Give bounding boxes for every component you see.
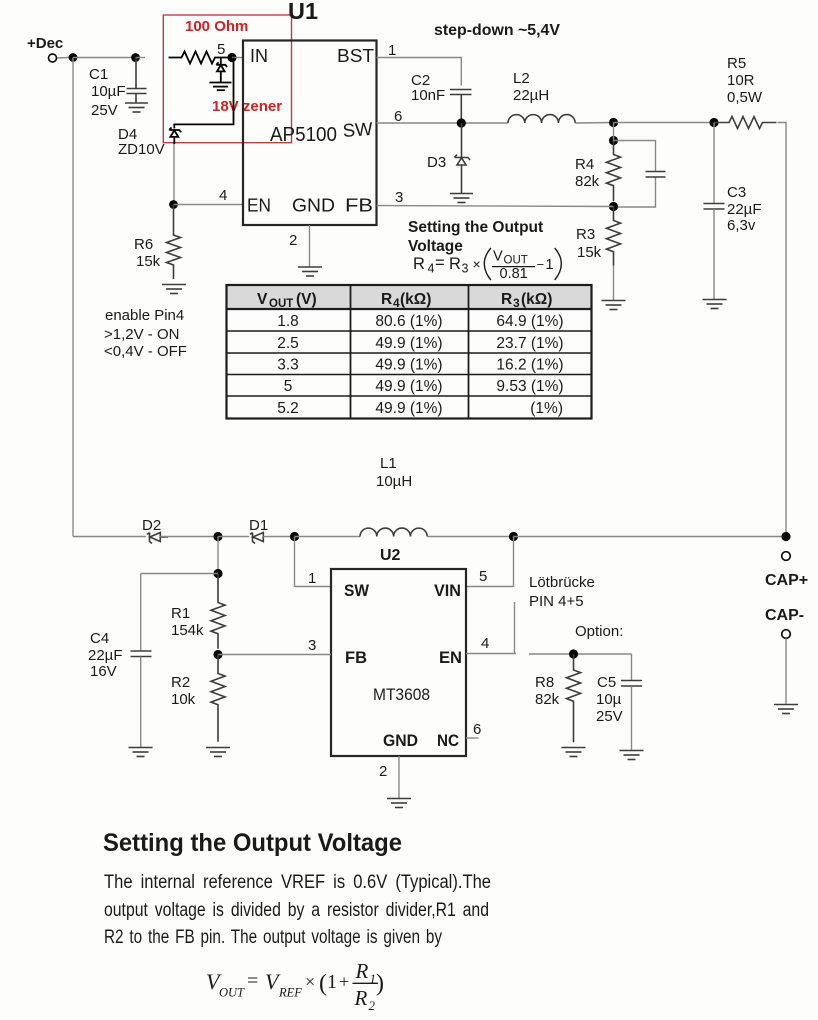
svg-text:L2: L2 [513,70,530,87]
svg-text:0.81: 0.81 [500,266,528,282]
wire U2 EN stub [466,653,516,655]
svg-text:−: − [537,257,545,272]
svg-text:R6: R6 [134,236,153,253]
svg-text:R8: R8 [535,674,554,691]
svg-text:80.6 (1%): 80.6 (1%) [375,313,442,330]
wire node B toward 100 Ohm resistor [136,57,146,59]
wire option branch (R8/C5 top) [529,653,632,655]
svg-text:49.9 (1%): 49.9 (1%) [375,378,442,395]
svg-text:FB: FB [345,195,373,216]
capacitor C5 [621,654,642,750]
svg-text:15k: 15k [136,253,161,270]
svg-text:AP5100: AP5100 [270,124,337,146]
svg-text:+Dec: +Dec [27,35,63,52]
resistor R2 [211,655,225,742]
node B junction (C1 tap) [131,53,140,62]
svg-text:2.5: 2.5 [277,335,299,352]
svg-text:V: V [257,291,268,308]
svg-text:154k: 154k [171,622,204,639]
wire node L down to U2 VIN pin 5 [466,537,514,587]
svg-text:R4: R4 [575,156,594,173]
wire left rail (node A down to bottom rail) [72,58,74,537]
diode D2 [147,533,168,544]
svg-text:R1: R1 [171,605,190,622]
svg-text:enable Pin4: enable Pin4 [105,307,184,324]
wire R5 to right rail down to CAP+ [778,123,787,537]
svg-text:49.9 (1%): 49.9 (1%) [375,335,442,352]
svg-text:16V: 16V [90,663,117,680]
svg-text:4: 4 [481,635,489,652]
svg-text:(kΩ): (kΩ) [400,291,431,308]
terminal CAP- [782,630,791,639]
resistor R8 [567,654,581,742]
svg-text:GND: GND [292,195,335,216]
red annotation box [163,15,291,143]
svg-text:22µH: 22µH [513,87,549,104]
svg-text:6,3v: 6,3v [727,217,756,234]
node N junction (R1/C4 top) [213,569,222,578]
capacitor C4 [131,574,152,748]
capacitor C1 [127,58,147,103]
ground (R3) [602,301,626,310]
svg-text:10µH: 10µH [376,473,412,490]
svg-text:+: + [339,972,349,992]
wire D1 to node K [263,536,294,538]
svg-text:0,5W: 0,5W [727,89,763,106]
table data column 1 [277,313,299,417]
wire node F to node H (R5 input) [614,122,715,124]
wire D4 to node D (EN net) [173,144,175,205]
svg-text:82k: 82k [575,173,600,190]
svg-text:<0,4V - OFF: <0,4V - OFF [104,343,187,360]
svg-text:D3: D3 [427,154,446,171]
svg-text:Voltage: Voltage [408,238,463,255]
ground (18V zener) [210,83,232,91]
node A junction [69,53,78,62]
svg-text:R: R [381,291,392,308]
svg-text:1: 1 [546,257,554,273]
svg-text:BST: BST [337,45,374,66]
svg-text:OUT: OUT [269,298,293,310]
svg-text:2: 2 [379,763,387,780]
svg-text:GND: GND [383,731,418,750]
svg-text:SW: SW [342,118,374,141]
wire R3 to ground [613,266,615,300]
table header background [227,285,592,309]
wire node J to D1 [218,536,249,538]
capacitor C2 [450,90,472,124]
ground (CAP-) [774,705,798,714]
node P junction (R8 top) [569,649,578,658]
svg-text:2: 2 [289,232,297,249]
terminal +Dec [49,54,57,62]
svg-text:25V: 25V [91,102,118,119]
svg-text:1: 1 [327,971,337,993]
svg-text:>1,2V - ON: >1,2V - ON [104,326,179,343]
wire node L to CAP+ node [514,536,787,538]
node D junction (EN net) [169,200,178,209]
resistor 100 Ohm [169,52,230,64]
svg-text:4: 4 [219,187,227,204]
svg-text:R2 to the FB pin. The output v: R2 to the FB pin. The output voltage is … [104,927,442,948]
node M junction (CAP+ node) [781,532,790,541]
svg-text:R: R [354,986,368,1010]
capacitor C3 [704,123,725,300]
svg-text:step-down ~5,4V: step-down ~5,4V [434,22,561,39]
wire node D to U1 EN [174,204,244,206]
svg-text:49.9 (1%): 49.9 (1%) [375,400,442,417]
svg-text:L1: L1 [380,455,397,472]
wire node A to node B [73,57,136,59]
ground (C3) [703,300,727,309]
svg-text:VIN: VIN [434,581,461,600]
node I junction (FB node) [609,202,618,211]
svg-text:3: 3 [308,637,316,654]
ground (C1) [125,103,148,112]
svg-text:9.53 (1%): 9.53 (1%) [496,378,563,395]
svg-text:10µ: 10µ [596,691,622,708]
svg-text:×: × [305,972,315,992]
wire node N left to C4 [141,573,218,575]
wire U1 SW to L2 [377,122,509,124]
ground (C4) [129,748,153,757]
svg-text:49.9 (1%): 49.9 (1%) [375,357,442,374]
svg-text:5: 5 [479,568,487,585]
svg-text:100 Ohm: 100 Ohm [185,18,248,35]
svg-text:=: = [435,254,445,272]
ground (R2) [206,748,230,757]
wire U1 GND to ground [309,225,311,267]
svg-text:Setting the Output Voltage: Setting the Output Voltage [103,829,402,857]
resistor R1 [211,574,225,649]
svg-text:PIN 4+5: PIN 4+5 [529,593,584,610]
svg-text:10nF: 10nF [411,87,445,104]
node E junction (SW/C2/D3) [457,118,466,127]
node O junction (FB divider) [213,650,222,659]
node F junction (Vout node) [609,118,618,127]
svg-text:R3: R3 [576,226,595,243]
svg-text:FB: FB [345,648,367,667]
svg-text:OUT: OUT [219,986,245,1000]
svg-text:16.2 (1%): 16.2 (1%) [496,357,563,374]
wire node K down to U2 SW pin 1 [295,537,332,587]
svg-text:EN: EN [439,648,462,667]
wire node C to U1 IN [232,57,243,59]
svg-text:U1: U1 [288,0,318,24]
svg-text:64.9 (1%): 64.9 (1%) [496,313,563,330]
node G junction (R4 top) [609,136,618,145]
resistor R4 [607,141,621,202]
feed-forward capacitor (across R4) [614,141,666,208]
svg-text:5.2: 5.2 [277,400,299,417]
svg-text:25V: 25V [596,708,623,725]
ground (U2 GND) [387,799,411,808]
ground (U1 GND) [298,267,322,276]
svg-text:CAP-: CAP- [765,607,804,624]
table of output voltage settings [227,285,592,419]
svg-text:×: × [473,256,481,272]
inductor L2 [508,115,575,123]
table header separator [227,308,592,310]
svg-text:U2: U2 [380,547,401,564]
ground (R8) [562,748,586,757]
table data column 3 [496,313,563,417]
svg-text:D2: D2 [142,517,161,534]
svg-text:C3: C3 [727,184,746,201]
svg-text:(: ( [319,971,327,997]
wire solder bridge (pin4 to pin5, open) [514,602,516,654]
svg-text:V: V [493,249,503,265]
svg-text:5: 5 [217,41,225,58]
svg-text:10k: 10k [171,691,196,708]
wire U2 NC stub [466,737,479,739]
svg-text:=: = [247,970,258,992]
svg-text:(kΩ): (kΩ) [521,291,552,308]
svg-text:R5: R5 [727,55,746,72]
node C junction (IN node) [227,53,236,62]
svg-text:R: R [501,291,512,308]
wire node C down and left to D4 (annotation wire) [174,58,233,129]
svg-text:REF: REF [278,986,302,1000]
svg-text:Lötbrücke: Lötbrücke [529,574,595,591]
svg-text:23.7 (1%): 23.7 (1%) [496,335,563,352]
svg-text:6: 6 [473,721,481,738]
wire D2 to node J [160,536,218,538]
svg-text:2: 2 [369,998,376,1013]
wire U1 BST to C2 [377,58,462,86]
terminal CAP+ [782,552,791,561]
wire U2 GND to ground [398,756,400,798]
svg-text:IN: IN [250,45,268,66]
svg-text:CAP+: CAP+ [765,572,808,589]
transistor U2 (MT3608 boost IC box) [331,569,466,756]
node H junction (C3 tap) [709,118,718,127]
svg-text:R: R [413,255,425,273]
svg-text:C5: C5 [597,674,616,691]
svg-text:The internal reference VREF is: The internal reference VREF is 0.6V (Typ… [104,872,491,893]
node L junction (VIN net) [509,532,518,541]
table column lines [350,285,352,419]
wire CAP- to ground [785,638,787,704]
wire node O to U2 FB [218,654,331,656]
svg-text:R2: R2 [171,674,190,691]
wire node J down to node N [217,537,219,574]
wire node K to L1 [295,536,361,538]
zener diode D3 [455,123,471,193]
svg-text:output voltage is divided by a: output voltage is divided by a resistor … [104,900,489,921]
svg-text:3.3: 3.3 [277,357,299,374]
resistor R3 [607,207,621,266]
svg-text:(V): (V) [296,291,317,308]
node K junction (U2 SW net) [290,532,299,541]
svg-text:3: 3 [513,296,520,310]
svg-text:OUT: OUT [504,255,528,267]
formula VOUT = VREF x (1 + R1/R2) [206,959,384,1013]
svg-text:Setting the Output: Setting the Output [408,219,543,236]
svg-text:C4: C4 [90,630,109,647]
svg-text:10µF: 10µF [91,83,126,100]
zener diode D4 [169,127,181,144]
svg-text:4: 4 [428,262,435,276]
svg-text:NC: NC [437,731,459,750]
svg-text:SW: SW [344,581,370,600]
svg-text:1.8: 1.8 [277,313,299,330]
wire bottom rail (left rail to D2) [73,536,146,538]
svg-text:4: 4 [393,296,400,310]
resistor R5 [714,117,777,129]
svg-text:ZD10V: ZD10V [118,141,165,158]
svg-text:D1: D1 [249,517,268,534]
wire U1 FB to node I [377,206,614,207]
svg-text:Option:: Option: [575,623,623,640]
svg-text:3: 3 [395,189,403,206]
svg-text:5: 5 [284,378,293,395]
wire node F to node G [613,123,615,141]
table outer border [227,285,592,419]
table row lines [227,330,592,332]
op-amp U1 (AP5100 regulator box) [243,41,377,226]
wire +Dec to node A [57,57,69,60]
ground (D3) [450,194,473,203]
svg-text:R: R [355,959,369,983]
svg-text:1: 1 [388,42,396,59]
ground (R6) [162,285,186,294]
svg-text:15k: 15k [577,244,602,261]
diode D1 [250,533,263,544]
formula R4 = R3 x (VOUT/0.81 - 1) [413,248,561,282]
wire L1 to node L [427,536,513,538]
svg-text:22µF: 22µF [88,647,123,664]
svg-text:C1: C1 [89,66,108,83]
svg-text:10R: 10R [727,72,755,89]
svg-text:1: 1 [308,570,316,587]
inductor L1 [360,528,427,536]
table data column 2 [375,313,442,417]
node J junction [213,532,222,541]
ground (C5) [620,751,644,760]
svg-text:MT3608: MT3608 [373,685,430,704]
svg-text:22µF: 22µF [727,201,762,218]
svg-text:18V zener: 18V zener [212,98,282,115]
svg-text:3: 3 [462,262,469,276]
svg-text:EN: EN [247,195,271,216]
wire L2 to node F [575,122,613,125]
svg-text:(1%): (1%) [530,400,563,417]
svg-text:82k: 82k [535,691,560,708]
svg-text:): ) [376,971,384,997]
zener diode 18V (annotation) [216,58,227,83]
resistor R6 [167,205,181,280]
svg-text:R: R [449,255,461,273]
